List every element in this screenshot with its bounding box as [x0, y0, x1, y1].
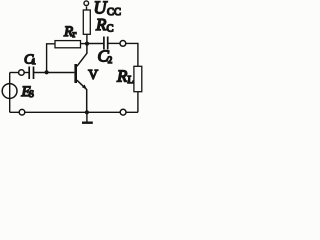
svg-text:CC: CC: [107, 7, 121, 18]
label Ucc: [94, 0, 122, 18]
wire bottom rail: [10, 111, 138, 113]
wire Rg left leg: [47, 44, 55, 73]
source ES: [2, 84, 17, 99]
svg-text:R: R: [95, 15, 107, 34]
junction base node: [45, 70, 49, 74]
svg-text:2: 2: [108, 55, 113, 65]
wire collector node to C2: [87, 43, 104, 45]
resistor RL: [134, 66, 142, 91]
capacitor C1: [29, 67, 33, 80]
wire output terminal to RL top corner: [126, 43, 138, 66]
transistor V base bar: [74, 64, 77, 83]
resistor RC: [83, 10, 90, 34]
wire Rg right to collector node: [81, 43, 88, 45]
svg-text:1: 1: [32, 57, 36, 66]
transistor V emitter lead with arrow: [77, 80, 87, 112]
svg-text:R: R: [116, 67, 128, 86]
transistor V collector lead: [77, 44, 87, 66]
wire input terminal to C1: [24, 72, 29, 74]
label ES: [21, 84, 35, 100]
label V: [88, 67, 98, 82]
output terminal top: [120, 41, 126, 47]
supply terminal Ucc: [84, 1, 89, 6]
label C1: [24, 53, 36, 68]
resistor Rg: [55, 41, 81, 48]
label Rg: [63, 24, 77, 40]
junction emitter bottom node: [85, 110, 89, 114]
svg-text:S: S: [29, 89, 34, 99]
svg-text:L: L: [128, 75, 134, 86]
wire RC bottom to collector node: [86, 34, 88, 43]
wire left input branch vertical through source: [9, 73, 11, 113]
svg-text:C: C: [107, 24, 114, 35]
wire RL bottom to rail: [137, 92, 139, 113]
svg-text:V: V: [88, 67, 98, 82]
label RC: [95, 15, 114, 35]
junction collector node: [85, 42, 89, 46]
wire supply to RC: [86, 6, 88, 10]
capacitor C2: [104, 37, 108, 50]
label RL: [116, 67, 134, 87]
wire C2 to output terminal: [108, 42, 120, 44]
output terminal bottom: [120, 109, 126, 115]
input terminal bottom: [19, 109, 25, 115]
wire C1 to base: [34, 72, 75, 74]
ground: [82, 112, 93, 122]
wire input top from corner to terminal: [10, 72, 19, 74]
svg-text:г: г: [73, 30, 77, 40]
input terminal top: [19, 70, 25, 76]
label C2: [98, 47, 113, 66]
